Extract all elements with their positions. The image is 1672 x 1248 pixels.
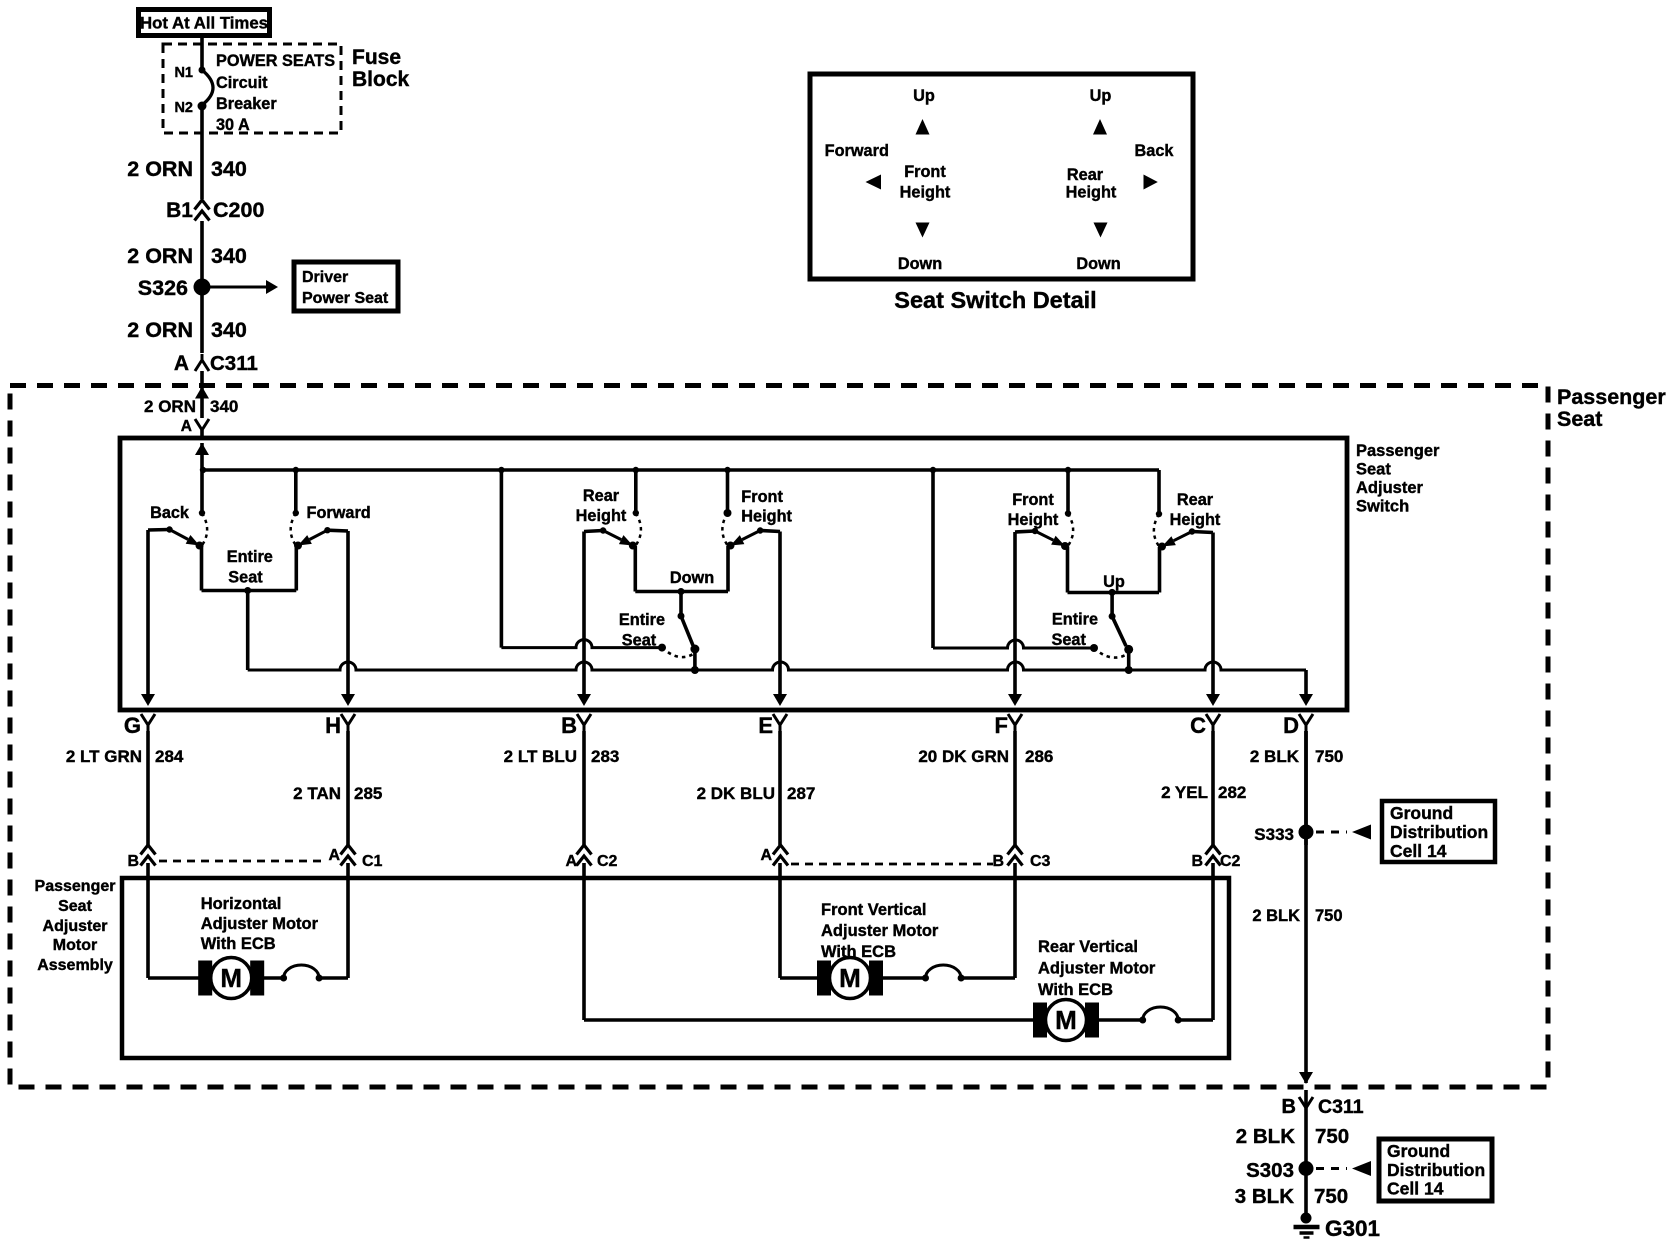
svg-text:2 ORN: 2 ORN <box>127 157 193 181</box>
svg-text:Down: Down <box>1076 255 1120 273</box>
svg-text:Block: Block <box>352 68 410 91</box>
svg-text:A: A <box>565 853 577 870</box>
svg-text:Entire: Entire <box>1052 611 1098 629</box>
svg-text:2 YEL: 2 YEL <box>1161 783 1208 802</box>
svg-text:Adjuster Motor: Adjuster Motor <box>821 922 939 940</box>
svg-text:B: B <box>1282 1096 1296 1118</box>
svg-text:S303: S303 <box>1246 1159 1294 1182</box>
svg-text:Height: Height <box>576 507 627 525</box>
svg-text:Ground: Ground <box>1390 803 1453 823</box>
svg-text:Seat: Seat <box>622 632 657 650</box>
svg-text:A: A <box>181 418 192 435</box>
svg-text:Rear: Rear <box>1067 166 1104 184</box>
svg-text:20 DK GRN: 20 DK GRN <box>918 747 1009 766</box>
svg-text:Distribution: Distribution <box>1390 822 1488 842</box>
svg-text:Up: Up <box>1103 573 1125 591</box>
svg-text:Front: Front <box>1012 491 1054 509</box>
svg-text:Seat: Seat <box>1051 631 1086 649</box>
svg-text:285: 285 <box>354 784 382 803</box>
svg-text:C311: C311 <box>1318 1096 1364 1118</box>
svg-text:Distribution: Distribution <box>1387 1160 1485 1180</box>
svg-text:2 ORN: 2 ORN <box>144 397 196 416</box>
svg-text:Down: Down <box>898 255 942 273</box>
svg-text:2 ORN: 2 ORN <box>127 318 193 342</box>
svg-text:750: 750 <box>1314 1185 1348 1208</box>
svg-text:Rear: Rear <box>1177 491 1214 509</box>
svg-text:284: 284 <box>155 747 184 766</box>
svg-text:Height: Height <box>741 508 792 526</box>
svg-text:Down: Down <box>670 569 714 587</box>
svg-text:283: 283 <box>591 747 619 766</box>
svg-text:A: A <box>760 847 772 864</box>
svg-text:2 BLK: 2 BLK <box>1250 747 1300 766</box>
svg-text:Seat: Seat <box>58 898 92 915</box>
svg-text:Height: Height <box>900 184 951 202</box>
svg-text:C2: C2 <box>597 853 618 870</box>
svg-text:Height: Height <box>1008 511 1059 529</box>
svg-text:A: A <box>328 847 340 864</box>
svg-text:Front Vertical: Front Vertical <box>821 901 926 919</box>
svg-text:Up: Up <box>913 87 935 105</box>
svg-text:B: B <box>992 853 1004 870</box>
svg-text:Driver: Driver <box>302 269 348 286</box>
svg-text:C200: C200 <box>213 198 264 222</box>
svg-text:Forward: Forward <box>307 504 371 522</box>
svg-text:2 LT GRN: 2 LT GRN <box>66 747 142 766</box>
svg-text:2 LT BLU: 2 LT BLU <box>504 747 577 766</box>
svg-text:D: D <box>1283 713 1299 738</box>
svg-text:N2: N2 <box>174 100 193 116</box>
svg-text:B1: B1 <box>166 199 193 222</box>
svg-text:Front: Front <box>904 163 946 181</box>
svg-text:C: C <box>1190 713 1206 738</box>
svg-text:H: H <box>325 713 341 738</box>
svg-text:Power Seat: Power Seat <box>302 290 389 307</box>
svg-text:M: M <box>1055 1005 1077 1035</box>
svg-text:Fuse: Fuse <box>352 46 401 69</box>
svg-text:Passenger: Passenger <box>1557 385 1666 409</box>
svg-text:340: 340 <box>211 244 247 268</box>
svg-text:Height: Height <box>1066 184 1117 202</box>
svg-text:Passenger: Passenger <box>35 878 116 895</box>
svg-text:Breaker: Breaker <box>216 95 277 113</box>
svg-text:With ECB: With ECB <box>1038 981 1113 999</box>
svg-text:Rear Vertical: Rear Vertical <box>1038 938 1138 956</box>
svg-text:F: F <box>995 713 1008 738</box>
svg-text:Adjuster Motor: Adjuster Motor <box>1038 960 1156 978</box>
svg-text:Back: Back <box>150 504 190 522</box>
svg-text:Seat: Seat <box>1356 461 1391 479</box>
svg-text:Cell 14: Cell 14 <box>1387 1179 1444 1199</box>
svg-text:With ECB: With ECB <box>821 943 896 961</box>
svg-text:Adjuster: Adjuster <box>43 918 108 935</box>
svg-text:Seat Switch Detail: Seat Switch Detail <box>894 287 1096 313</box>
svg-text:C2: C2 <box>1220 853 1241 870</box>
svg-text:M: M <box>220 963 242 993</box>
svg-text:Up: Up <box>1090 87 1112 105</box>
svg-text:340: 340 <box>211 318 247 342</box>
svg-text:Ground: Ground <box>1387 1141 1450 1161</box>
svg-text:3 BLK: 3 BLK <box>1235 1185 1294 1208</box>
svg-text:Adjuster Motor: Adjuster Motor <box>201 915 319 933</box>
svg-text:A: A <box>174 352 189 375</box>
svg-text:C311: C311 <box>210 352 258 375</box>
svg-text:Rear: Rear <box>583 487 620 505</box>
svg-text:B: B <box>561 713 577 738</box>
svg-text:Adjuster: Adjuster <box>1356 479 1424 497</box>
svg-text:Seat: Seat <box>228 569 263 587</box>
svg-text:With ECB: With ECB <box>201 935 276 953</box>
svg-text:340: 340 <box>210 397 238 416</box>
svg-text:E: E <box>758 713 773 738</box>
svg-text:750: 750 <box>1315 907 1343 925</box>
svg-text:287: 287 <box>787 784 815 803</box>
svg-text:Front: Front <box>741 488 783 506</box>
svg-text:M: M <box>839 963 861 993</box>
svg-text:Forward: Forward <box>825 142 889 160</box>
svg-text:Horizontal: Horizontal <box>201 895 282 913</box>
svg-text:2 DK BLU: 2 DK BLU <box>697 784 775 803</box>
svg-text:S326: S326 <box>138 276 188 300</box>
svg-text:Back: Back <box>1135 142 1175 160</box>
svg-text:2 BLK: 2 BLK <box>1236 1125 1295 1148</box>
svg-text:750: 750 <box>1315 1125 1349 1148</box>
svg-text:B: B <box>127 853 139 870</box>
svg-text:G301: G301 <box>1325 1216 1380 1241</box>
svg-text:N1: N1 <box>174 65 193 81</box>
svg-text:Circuit: Circuit <box>216 74 268 92</box>
svg-text:2 ORN: 2 ORN <box>127 244 193 268</box>
svg-text:2 TAN: 2 TAN <box>293 784 341 803</box>
svg-text:Assembly: Assembly <box>37 957 113 974</box>
svg-text:C3: C3 <box>1030 853 1051 870</box>
svg-text:B: B <box>1191 853 1203 870</box>
svg-text:Hot At All Times: Hot At All Times <box>140 14 268 33</box>
svg-text:C1: C1 <box>362 853 383 870</box>
svg-text:POWER SEATS: POWER SEATS <box>216 52 335 70</box>
svg-text:Entire: Entire <box>227 548 273 566</box>
svg-text:Seat: Seat <box>1557 407 1602 431</box>
svg-text:Entire: Entire <box>619 611 665 629</box>
svg-text:Motor: Motor <box>53 937 97 954</box>
svg-text:282: 282 <box>1218 783 1246 802</box>
svg-text:G: G <box>124 713 141 738</box>
svg-text:Cell 14: Cell 14 <box>1390 841 1447 861</box>
svg-text:30 A: 30 A <box>216 116 250 134</box>
svg-text:340: 340 <box>211 157 247 181</box>
svg-text:S333: S333 <box>1254 825 1294 844</box>
svg-text:Passenger: Passenger <box>1356 442 1440 460</box>
svg-text:Switch: Switch <box>1356 498 1409 516</box>
svg-text:286: 286 <box>1025 747 1053 766</box>
svg-text:2 BLK: 2 BLK <box>1252 907 1300 925</box>
svg-text:750: 750 <box>1315 747 1343 766</box>
svg-text:Height: Height <box>1170 511 1221 529</box>
